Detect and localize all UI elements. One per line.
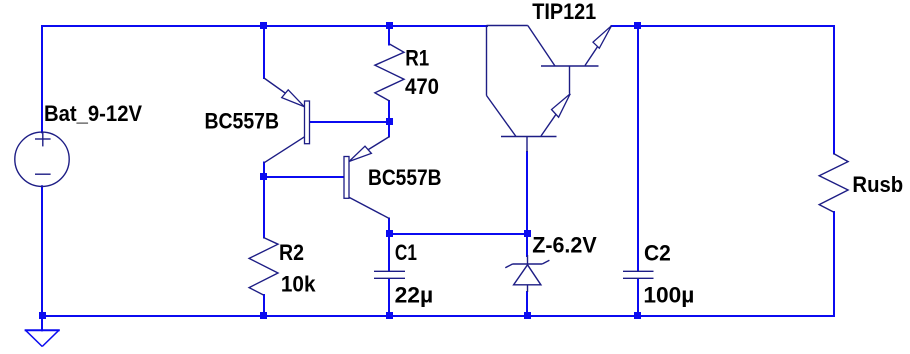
wire Q2 emitter feed [388, 122, 390, 137]
node zener / TIP121 base [524, 230, 531, 237]
wire C2 top feed [637, 26, 639, 271]
capacitor C1 [374, 271, 405, 278]
node top rail / Q1 emitter [260, 22, 267, 29]
node ground rail / C1 [386, 312, 393, 319]
wire Rusb bottom to ground rail [833, 212, 835, 316]
svg-text:Z-6.2V: Z-6.2V [532, 233, 597, 258]
node Q2 collector / C1 [386, 230, 393, 237]
node top rail / R1 [386, 22, 393, 29]
label R1 [405, 46, 429, 71]
svg-text:R2: R2 [279, 240, 304, 265]
svg-text:470: 470 [405, 74, 439, 99]
label 10k [281, 272, 316, 297]
wire zener top [526, 234, 528, 256]
wire top rail right (TIP121 emitter to Rusb) [612, 25, 835, 27]
svg-text:C2: C2 [644, 240, 671, 265]
wire R1 bottom to Q1 base node [388, 101, 390, 122]
wire C1 top [388, 234, 390, 271]
transistor U1 TIP121 (NPN darlington) [487, 26, 612, 153]
wire R2 bottom to ground rail [263, 295, 265, 316]
transistor Q1 BC557B (PNP) [264, 78, 310, 163]
wire Q1 collector stub [263, 163, 265, 178]
voltage source Bat_9-12V [15, 132, 69, 187]
svg-text:TIP121: TIP121 [532, 0, 596, 24]
node ground rail / battery [39, 312, 46, 319]
zener diode Z-6.2V [505, 255, 549, 292]
wire Q2 base [264, 176, 344, 178]
label R2 [279, 240, 304, 265]
wire zener bottom [526, 292, 528, 316]
wire TIP121 base down to zener node [526, 152, 528, 234]
svg-text:100µ: 100µ [643, 283, 694, 308]
node ground rail / R2 [260, 312, 267, 319]
wire bottom rail (ground net) [42, 315, 834, 317]
resistor R2 [249, 238, 278, 296]
label Bat_9-12V [44, 101, 142, 126]
resistor R1 [375, 44, 404, 101]
node Q1 base / R1 [386, 118, 393, 125]
wire R1 top feed [388, 26, 390, 45]
wire node C1 to zener [389, 233, 527, 235]
label 100u [643, 283, 694, 308]
svg-text:C1: C1 [395, 240, 417, 265]
wire Q1 emitter feed [263, 26, 265, 78]
label BC557B (Q1) [205, 108, 280, 133]
wire battery bottom [41, 186, 43, 316]
wire top rail left (battery+ to TIP121 collector) [42, 25, 487, 27]
label Rusb [852, 172, 903, 197]
label Z-6.2V [532, 233, 597, 258]
wire Q2 collector stub [388, 219, 390, 235]
ground [26, 319, 59, 347]
label 470 [405, 74, 439, 99]
capacitor C2 [623, 271, 654, 278]
wire C1 bottom [388, 279, 390, 316]
node top rail / C2 [634, 22, 641, 29]
wire battery top [41, 26, 43, 132]
svg-text:Bat_9-12V: Bat_9-12V [44, 101, 142, 126]
node ground rail / zener [524, 312, 531, 319]
svg-text:BC557B: BC557B [368, 165, 442, 190]
label C2 [644, 240, 671, 265]
resistor Rusb [819, 154, 848, 213]
wire right drop to Rusb top [833, 26, 835, 154]
label TIP121 [532, 0, 596, 24]
svg-text:10k: 10k [281, 272, 316, 297]
wire Q1 base [310, 121, 390, 123]
wire C2 bottom [637, 279, 639, 316]
wire R2 top feed [263, 177, 265, 238]
label C1 [395, 240, 417, 265]
svg-text:22µ: 22µ [395, 283, 434, 308]
svg-text:Rusb: Rusb [852, 172, 903, 197]
svg-text:R1: R1 [405, 46, 429, 71]
label BC557B (Q2) [368, 165, 442, 190]
node Q2 base / Q1 collector / R2 [260, 173, 267, 180]
transistor Q2 BC557B (PNP) [344, 137, 390, 219]
label 22u [395, 283, 434, 308]
node ground rail / C2 [634, 312, 641, 319]
svg-text:BC557B: BC557B [205, 108, 280, 133]
